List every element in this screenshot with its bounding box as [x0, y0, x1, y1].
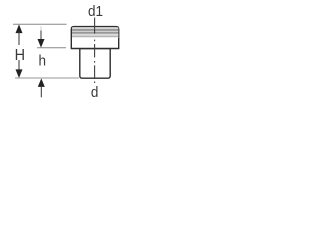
extension line top (socket top level) [13, 23, 67, 25]
background [0, 0, 136, 102]
label d [91, 85, 99, 102]
svg-text:h: h [39, 53, 47, 70]
h dimension line lower [40, 87, 42, 98]
h dimension arrow up [38, 78, 45, 87]
label h [39, 53, 47, 70]
centerline dot 2 [94, 61, 96, 63]
socket ribbed band [72, 27, 118, 38]
svg-text:H: H [15, 46, 25, 64]
pipe spigot d [80, 49, 110, 79]
H dimension arrow down [16, 69, 23, 78]
H dimension line lower [18, 60, 20, 71]
extension line bottom (pipe end level) [15, 77, 79, 79]
centerline dash 3 [94, 65, 96, 79]
socket body d1 [71, 27, 118, 49]
label d1 [88, 3, 103, 20]
centerline dash 2 [94, 44, 96, 57]
label H [15, 46, 25, 64]
extension line middle (socket bottom level) [37, 47, 66, 49]
H dimension arrow up [16, 24, 23, 33]
centerline upper dash [94, 18, 96, 34]
h dimension line upper [40, 26, 42, 31]
svg-text:d: d [91, 85, 99, 102]
centerline dot 3 [94, 81, 96, 83]
svg-text:d1: d1 [88, 3, 103, 20]
h dimension arrow down [38, 39, 45, 48]
centerline dot 1 [94, 40, 96, 42]
H dimension line upper [18, 32, 20, 45]
